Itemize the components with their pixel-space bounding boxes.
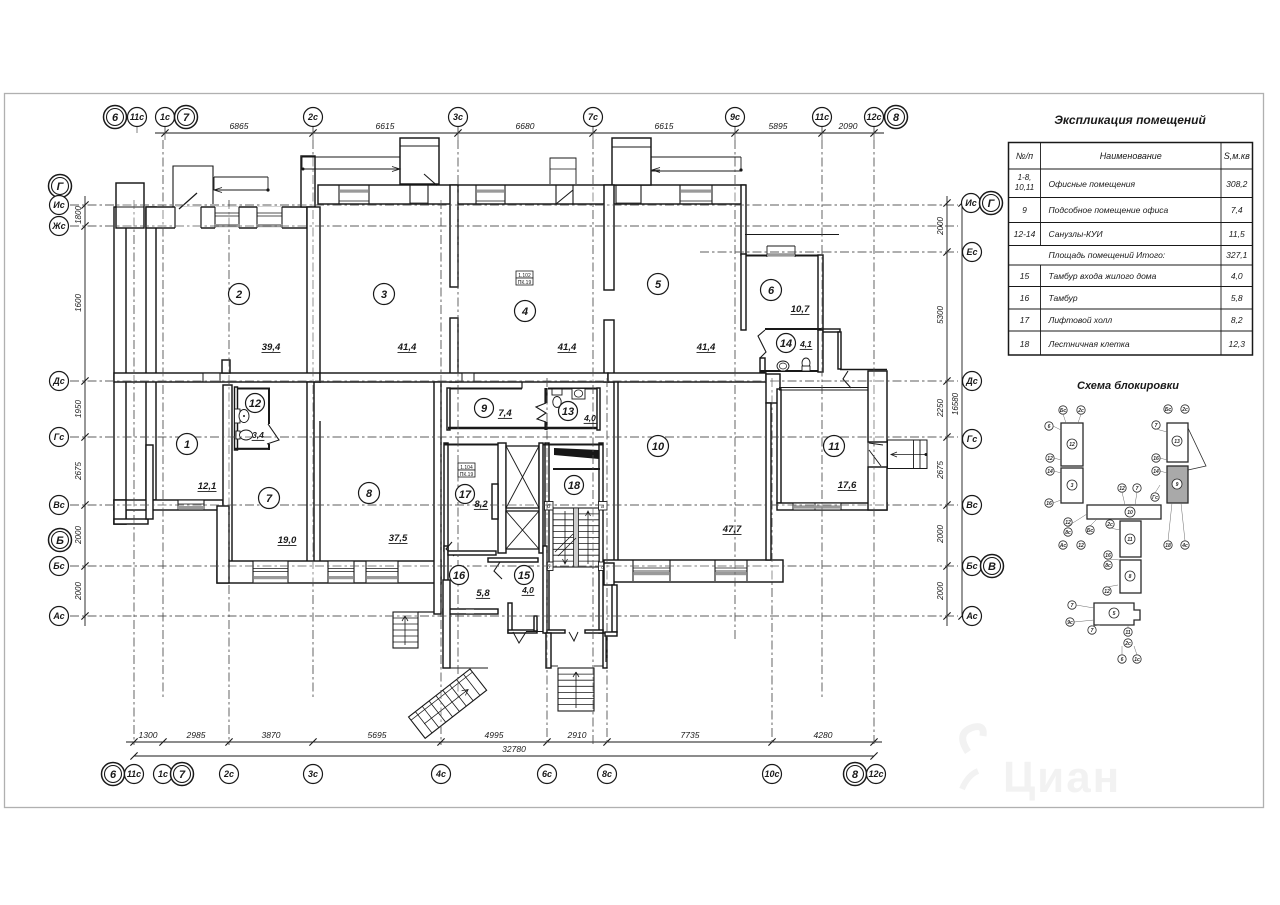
svg-text:41,4: 41,4 <box>557 342 577 353</box>
svg-text:№/п: №/п <box>1016 151 1033 161</box>
room9 walls <box>447 388 450 430</box>
room12 sink <box>236 431 240 439</box>
room 11 <box>824 436 845 457</box>
svg-text:7: 7 <box>266 493 273 505</box>
svg-text:Бс: Бс <box>1165 407 1172 413</box>
svg-text:13: 13 <box>562 406 574 418</box>
svg-text:Ис: Ис <box>965 198 976 208</box>
svg-text:12,1: 12,1 <box>198 481 217 492</box>
svg-text:5,8: 5,8 <box>476 588 490 599</box>
svg-text:8с: 8с <box>1065 530 1071 536</box>
svg-text:6: 6 <box>768 285 775 297</box>
svg-text:5895: 5895 <box>769 121 788 131</box>
room10 left wall <box>614 382 618 563</box>
roof overhang line right top <box>745 234 839 236</box>
svg-text:2с: 2с <box>223 769 234 779</box>
svg-text:3,4: 3,4 <box>252 430 264 440</box>
svg-text:7: 7 <box>1091 628 1094 634</box>
room 16 <box>450 566 469 585</box>
room16 walls <box>444 546 448 620</box>
svg-text:1: 1 <box>184 439 190 451</box>
svg-text:Санузлы-КУИ: Санузлы-КУИ <box>1049 229 1104 239</box>
room14 sink <box>777 361 789 371</box>
svg-text:4,0: 4,0 <box>1231 271 1243 281</box>
svg-text:39,4: 39,4 <box>262 342 281 353</box>
svg-text:12-14: 12-14 <box>1014 229 1036 239</box>
svg-text:12: 12 <box>249 398 261 410</box>
room11 bottom wall with window <box>777 503 887 510</box>
canopy with arrow above room 3 <box>302 156 400 158</box>
door gaps in middle band <box>203 374 220 381</box>
svg-text:8: 8 <box>852 769 859 781</box>
svg-text:10,11: 10,11 <box>1015 183 1034 192</box>
svg-text:16: 16 <box>1105 553 1111 559</box>
svg-text:32780: 32780 <box>502 744 526 754</box>
room 18 <box>565 476 584 495</box>
walkway to diagonal stair <box>450 667 488 669</box>
svg-text:Дс: Дс <box>52 376 65 386</box>
top wall band rooms 3-5 <box>318 185 745 204</box>
chimney shaft above wall 2/3 <box>301 156 315 207</box>
right axis circles <box>962 194 981 213</box>
svg-text:Лестничная клетка: Лестничная клетка <box>1048 339 1130 349</box>
svg-text:Бс: Бс <box>966 561 977 571</box>
svg-text:Тамбур: Тамбур <box>1049 293 1078 303</box>
svg-text:2с: 2с <box>1181 407 1188 413</box>
bottom total dimension line 32780 <box>134 755 874 757</box>
rooms 7-8 bottom wall with windows <box>217 561 441 583</box>
room 12 walls <box>235 387 238 450</box>
svg-text:3: 3 <box>1071 483 1074 489</box>
room 9 <box>475 399 494 418</box>
svg-text:8с: 8с <box>1105 563 1111 569</box>
room 5 <box>648 274 669 295</box>
vertical axis dash-dot lines <box>162 140 164 700</box>
room8 right wall lower <box>434 382 441 614</box>
leader lines <box>1063 414 1066 423</box>
svg-text:12с: 12с <box>868 769 883 779</box>
svg-text:9: 9 <box>481 403 488 415</box>
svg-text:17,6: 17,6 <box>838 480 857 491</box>
svg-text:7: 7 <box>179 769 186 781</box>
svg-text:1300: 1300 <box>139 730 158 740</box>
lift hall room17 walls <box>444 443 448 551</box>
svg-text:41,4: 41,4 <box>397 342 417 353</box>
door zigzag room15 left <box>494 562 502 579</box>
svg-text:4280: 4280 <box>814 730 833 740</box>
svg-text:8: 8 <box>893 112 900 124</box>
svg-text:Вс: Вс <box>966 500 978 510</box>
room 17 <box>456 485 475 504</box>
door leaf room5 <box>617 171 631 183</box>
bottom axis circles <box>102 763 125 786</box>
svg-text:11: 11 <box>1127 537 1132 543</box>
left block bottom outer corner <box>114 500 126 524</box>
svg-text:1800: 1800 <box>74 206 83 224</box>
svg-text:Б: Б <box>56 535 64 547</box>
bottom dimension line (segments) <box>126 741 882 743</box>
svg-text:Подсобное помещение офиса: Подсобное помещение офиса <box>1049 205 1169 215</box>
opening room4 door <box>556 186 573 203</box>
windows rooms 7/8 bottom <box>253 562 288 583</box>
left outer wall with top column <box>114 207 126 524</box>
svg-text:16: 16 <box>1153 456 1159 462</box>
door zigzag room6-14 <box>758 330 766 358</box>
svg-text:14: 14 <box>1047 469 1053 475</box>
elevator shaft 1 <box>506 446 539 508</box>
svg-text:2000: 2000 <box>936 525 945 544</box>
right dimension line <box>946 196 948 626</box>
svg-text:4с: 4с <box>1181 543 1188 549</box>
svg-text:1.102: 1.102 <box>518 273 531 279</box>
exterior stair near room8 <box>393 612 418 648</box>
svg-text:2с: 2с <box>1077 408 1084 414</box>
stair block walls <box>545 443 549 633</box>
svg-text:16: 16 <box>453 570 466 582</box>
wall rooms 9/13 with zigzag door <box>544 388 547 403</box>
horizontal axis dash-dot lines <box>70 204 958 206</box>
svg-text:17: 17 <box>459 489 472 501</box>
svg-text:Лифтовой холл: Лифтовой холл <box>1048 315 1113 325</box>
wall room1 / room7 <box>223 385 232 565</box>
wall rooms 15/17 <box>488 558 538 562</box>
svg-text:7,4: 7,4 <box>498 408 512 419</box>
svg-text:1с: 1с <box>1134 657 1140 663</box>
svg-text:3с: 3с <box>453 112 463 122</box>
svg-text:ПК.19: ПК.19 <box>460 472 474 478</box>
svg-text:1950: 1950 <box>74 400 83 418</box>
svg-text:2: 2 <box>235 289 242 301</box>
small canopy above room4 door <box>550 158 576 184</box>
svg-text:9с: 9с <box>1067 620 1073 626</box>
small door squares stairs <box>545 502 554 511</box>
elevator shaft 2 <box>506 511 539 549</box>
room10 right wall / corridor stub <box>766 374 780 403</box>
svg-text:Наименование: Наименование <box>1100 151 1162 161</box>
svg-text:12: 12 <box>1104 589 1110 595</box>
svg-text:Офисные помещения: Офисные помещения <box>1049 179 1136 189</box>
room 13 <box>559 402 578 421</box>
room1 bottom wall with window <box>114 500 223 510</box>
svg-text:18: 18 <box>568 480 581 492</box>
tag box room17 <box>458 463 475 470</box>
svg-text:327,1: 327,1 <box>1226 250 1248 260</box>
svg-text:41,4: 41,4 <box>696 342 716 353</box>
svg-text:17: 17 <box>1020 315 1030 325</box>
svg-text:1600: 1600 <box>74 294 83 312</box>
svg-text:16: 16 <box>1020 293 1030 303</box>
svg-text:7735: 7735 <box>681 730 700 740</box>
svg-text:Бс: Бс <box>53 561 64 571</box>
room 1 <box>177 434 198 455</box>
svg-text:Циан: Циан <box>1003 753 1121 802</box>
svg-text:13: 13 <box>1174 439 1180 445</box>
door leaf near 3c axis <box>424 174 437 186</box>
stair arrows <box>563 511 568 564</box>
svg-text:8,2: 8,2 <box>1231 315 1243 325</box>
svg-text:11: 11 <box>1125 630 1130 636</box>
svg-text:6865: 6865 <box>230 121 249 131</box>
svg-text:2с: 2с <box>307 112 318 122</box>
left axis circles <box>49 175 72 198</box>
svg-text:Ас: Ас <box>965 611 977 621</box>
rooms 15/16 bottom wall with window <box>443 609 498 614</box>
stairs room18 <box>553 508 599 567</box>
explication table <box>1009 143 1253 356</box>
room10 bottom wall with windows <box>604 560 783 582</box>
room 10 <box>648 436 669 457</box>
svg-text:11: 11 <box>828 441 839 453</box>
svg-text:6615: 6615 <box>655 121 674 131</box>
svg-text:6: 6 <box>110 769 117 781</box>
svg-text:47,7: 47,7 <box>722 524 742 535</box>
door leaf near 7c axis <box>556 190 573 204</box>
room5 right wall <box>741 185 746 255</box>
svg-text:Жс: Жс <box>51 221 65 231</box>
svg-text:Бс: Бс <box>1060 408 1067 414</box>
vertical axis dash-dot lines <box>162 140 164 700</box>
svg-text:2910: 2910 <box>567 730 587 740</box>
drawing frame border <box>5 94 1264 808</box>
room6 window <box>766 254 768 257</box>
vestibule door V <box>513 632 526 643</box>
left inner wall <box>146 207 156 500</box>
svg-text:4с: 4с <box>435 769 446 779</box>
room 15 <box>515 566 534 585</box>
svg-text:308,2: 308,2 <box>1226 179 1248 189</box>
svg-text:5: 5 <box>1113 611 1116 617</box>
elevator shaft walls <box>498 443 506 553</box>
room 8 <box>359 483 380 504</box>
svg-text:4,0: 4,0 <box>583 413 596 423</box>
wall between rooms 4 and 5 (door gap) <box>604 185 614 290</box>
svg-text:Бс: Бс <box>1087 528 1094 534</box>
top axis circles <box>104 106 127 129</box>
svg-text:6: 6 <box>1048 424 1051 430</box>
blocking scheme blocks <box>1061 423 1083 466</box>
room 6 <box>761 280 782 301</box>
wall between rooms 2 and 3 <box>307 207 320 382</box>
vestibule left wall down <box>443 580 450 668</box>
svg-text:В: В <box>988 561 996 573</box>
svg-text:37,5: 37,5 <box>389 533 408 544</box>
svg-text:S,м.кв: S,м.кв <box>1224 151 1250 161</box>
svg-text:6: 6 <box>112 112 119 124</box>
svg-text:2090: 2090 <box>838 121 858 131</box>
room11 top door zigzag <box>843 371 851 388</box>
room 2 top wall band <box>146 207 307 228</box>
svg-text:9с: 9с <box>730 112 740 122</box>
svg-text:12: 12 <box>1047 456 1053 462</box>
svg-text:1-8,: 1-8, <box>1018 173 1032 182</box>
svg-text:3870: 3870 <box>262 730 281 740</box>
svg-text:Ис: Ис <box>53 200 64 210</box>
left dimension line <box>84 196 86 626</box>
room11 left wall <box>777 389 781 503</box>
room12 toilet <box>235 409 241 423</box>
room11 top wall <box>779 387 868 389</box>
tower above 7c-9c <box>612 138 651 185</box>
room 3 <box>374 284 395 305</box>
svg-text:9: 9 <box>1176 482 1179 488</box>
diagonal entrance stair bottom center <box>409 669 487 738</box>
svg-text:Тамбур входа жилого дома: Тамбур входа жилого дома <box>1049 271 1157 281</box>
door zigzag room16/17 <box>446 542 454 556</box>
counterweight niche <box>492 484 498 519</box>
svg-text:10с: 10с <box>764 769 779 779</box>
room13 toilet <box>552 389 562 395</box>
svg-text:11с: 11с <box>127 769 141 779</box>
svg-text:15: 15 <box>518 570 531 582</box>
entrance canopy above <box>173 166 213 207</box>
svg-text:8с: 8с <box>602 769 612 779</box>
door jamb stub above band <box>222 360 230 373</box>
svg-text:2000: 2000 <box>936 582 945 601</box>
svg-text:7с: 7с <box>588 112 598 122</box>
room15 right wall <box>543 546 547 633</box>
svg-text:Вс: Вс <box>53 500 65 510</box>
svg-text:4,1: 4,1 <box>799 339 812 349</box>
svg-text:12: 12 <box>1119 486 1125 492</box>
canopy with arrow above room2 <box>214 176 268 178</box>
svg-text:8: 8 <box>1129 574 1132 580</box>
wall between rooms 3 and 4 (door gap) <box>450 185 458 287</box>
tower above room 3 <box>400 138 439 184</box>
svg-text:2250: 2250 <box>936 399 945 418</box>
entrance opening + door leaf <box>175 206 201 229</box>
below room10: stepped wall to entrance <box>604 563 614 585</box>
svg-text:12с: 12с <box>866 112 881 122</box>
room6 bottom step wall <box>765 328 823 330</box>
svg-text:3: 3 <box>381 289 387 301</box>
svg-text:2675: 2675 <box>936 461 945 480</box>
svg-text:11с: 11с <box>130 112 144 122</box>
middle horizontal wall band <box>114 373 320 382</box>
room18 box top wall <box>553 468 600 470</box>
blocking scheme leader circles <box>1059 406 1067 414</box>
svg-text:2675: 2675 <box>74 462 83 481</box>
room 4 <box>515 301 536 322</box>
tag box room4 <box>516 271 533 278</box>
window room2 a <box>215 206 239 229</box>
svg-text:1с: 1с <box>158 769 168 779</box>
svg-text:6680: 6680 <box>516 121 535 131</box>
vestibule walls <box>508 603 512 633</box>
room 7 <box>259 488 280 509</box>
svg-text:14: 14 <box>1153 469 1159 475</box>
duct protrusion right of room11 <box>888 440 928 469</box>
svg-text:Экспликация помещений: Экспликация помещений <box>1054 113 1206 127</box>
room 14 walls <box>760 358 765 372</box>
svg-text:10: 10 <box>652 441 665 453</box>
vertical entrance stair bottom center-right <box>558 668 594 711</box>
room14 toilet <box>802 358 810 368</box>
svg-text:16580: 16580 <box>951 392 960 415</box>
svg-text:12: 12 <box>1078 543 1084 549</box>
svg-text:7,4: 7,4 <box>1231 205 1243 215</box>
watermark Cian <box>962 727 1121 802</box>
svg-text:Схема блокировки: Схема блокировки <box>1077 380 1179 392</box>
room13 sink <box>572 389 585 400</box>
svg-text:Гс: Гс <box>1152 495 1158 501</box>
room11 right outer wall with opening <box>868 371 887 442</box>
svg-text:Гс: Гс <box>54 432 65 442</box>
svg-text:5695: 5695 <box>368 730 387 740</box>
black slab marker above stairs <box>554 448 599 459</box>
svg-text:Дс: Дс <box>965 376 978 386</box>
svg-text:4995: 4995 <box>485 730 504 740</box>
canopy with arrow above room5 <box>651 156 741 158</box>
svg-text:3с: 3с <box>308 769 318 779</box>
svg-text:5,8: 5,8 <box>1231 293 1243 303</box>
stair block bottom wall with door V <box>547 630 565 633</box>
svg-text:4,0: 4,0 <box>521 585 534 595</box>
room 12 <box>246 394 265 413</box>
svg-text:16: 16 <box>1046 501 1052 507</box>
window room2 b <box>257 206 282 229</box>
door opening room3 right <box>410 186 428 203</box>
svg-text:11с: 11с <box>815 112 829 122</box>
porch side walls <box>546 633 551 668</box>
svg-text:19,0: 19,0 <box>278 535 297 546</box>
svg-text:Ес: Ес <box>966 247 977 257</box>
top dimension line <box>155 132 884 134</box>
svg-text:10,7: 10,7 <box>791 304 810 315</box>
svg-text:18: 18 <box>1165 543 1171 549</box>
svg-text:2с: 2с <box>1124 641 1131 647</box>
svg-text:Площадь помещений Итого:: Площадь помещений Итого: <box>1049 250 1166 260</box>
svg-text:15: 15 <box>1020 271 1030 281</box>
svg-text:Гс: Гс <box>967 434 978 444</box>
svg-text:8,2: 8,2 <box>474 499 488 510</box>
thin partition in room8 <box>319 421 321 563</box>
svg-text:Ас: Ас <box>52 611 64 621</box>
svg-text:8: 8 <box>366 488 373 500</box>
right total dimension 16580 <box>961 203 963 616</box>
svg-text:2985: 2985 <box>186 730 206 740</box>
svg-text:11,5: 11,5 <box>1229 229 1245 239</box>
svg-text:5300: 5300 <box>936 306 945 324</box>
svg-text:7: 7 <box>183 112 190 124</box>
svg-text:Ас: Ас <box>1059 543 1066 549</box>
svg-text:12: 12 <box>1069 442 1075 448</box>
room13 right wall <box>597 388 600 430</box>
windows in top wall <box>339 186 369 203</box>
room 14 <box>777 334 796 353</box>
svg-text:6с: 6с <box>542 769 552 779</box>
svg-text:1.104: 1.104 <box>460 465 473 471</box>
svg-text:6615: 6615 <box>376 121 395 131</box>
svg-text:7: 7 <box>1136 486 1139 492</box>
svg-text:18: 18 <box>1020 339 1030 349</box>
horizontal axis dash-dot lines <box>70 204 958 206</box>
opening room5 left <box>616 186 641 203</box>
room 6 walls <box>741 254 746 330</box>
wall rooms 16/17 <box>448 551 496 555</box>
svg-text:14: 14 <box>780 338 792 350</box>
room 2 <box>229 284 250 305</box>
svg-text:9: 9 <box>1022 205 1027 215</box>
balcony step walls room6 to room11 <box>823 329 840 332</box>
svg-text:10: 10 <box>1127 510 1133 516</box>
svg-text:1с: 1с <box>160 112 170 122</box>
svg-text:12,3: 12,3 <box>1228 339 1245 349</box>
svg-text:5: 5 <box>655 279 662 291</box>
svg-text:2000: 2000 <box>74 526 83 545</box>
svg-text:6: 6 <box>1121 657 1124 663</box>
svg-text:2с: 2с <box>1106 522 1113 528</box>
svg-text:ПК.19: ПК.19 <box>518 280 532 286</box>
